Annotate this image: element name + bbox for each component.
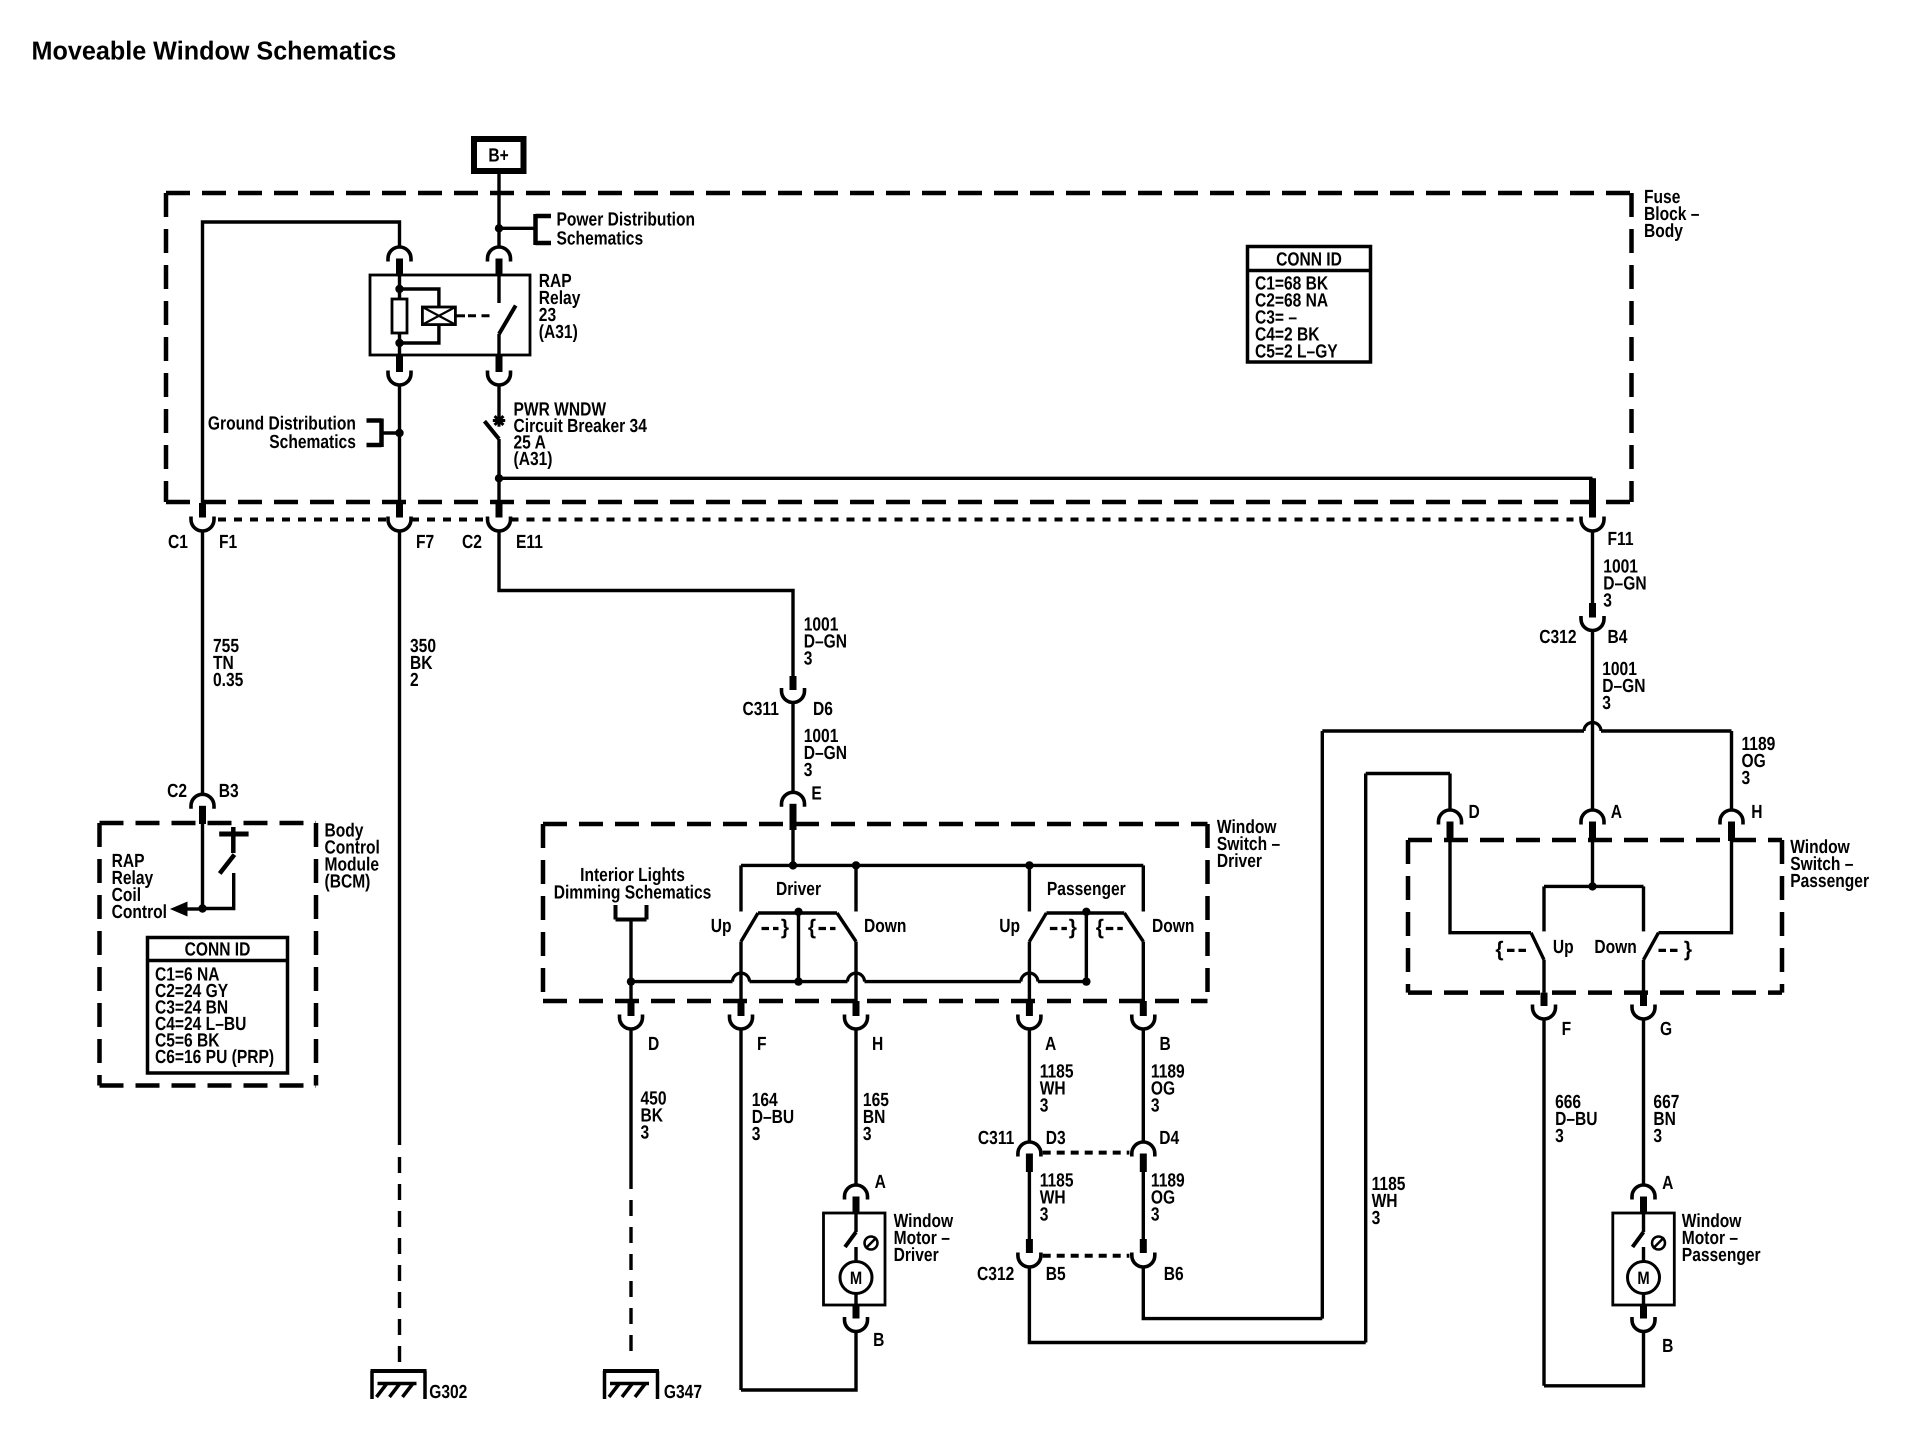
svg-text:C6=16 PU (PRP): C6=16 PU (PRP) xyxy=(155,1047,274,1068)
svg-text:C311: C311 xyxy=(743,699,780,720)
svg-text:3: 3 xyxy=(641,1123,650,1144)
svg-text:Up: Up xyxy=(711,916,732,937)
svg-text:(A31): (A31) xyxy=(539,322,578,343)
svg-text:E: E xyxy=(811,784,821,805)
svg-text:{: { xyxy=(1495,938,1503,961)
svg-text:Driver: Driver xyxy=(776,879,822,900)
svg-text:D4: D4 xyxy=(1159,1128,1179,1149)
svg-text:3: 3 xyxy=(804,760,813,781)
svg-text:F: F xyxy=(757,1034,767,1055)
svg-text:B: B xyxy=(1662,1336,1673,1357)
svg-text:0.35: 0.35 xyxy=(213,670,244,691)
svg-text:Body: Body xyxy=(1644,221,1683,242)
svg-text:(BCM): (BCM) xyxy=(325,872,371,893)
svg-text:Schematics: Schematics xyxy=(557,229,644,250)
svg-text:A: A xyxy=(1662,1173,1673,1194)
svg-text:C312: C312 xyxy=(977,1264,1014,1285)
svg-text:3: 3 xyxy=(863,1124,872,1145)
svg-text:Driver: Driver xyxy=(894,1245,940,1266)
svg-text:A: A xyxy=(875,1172,886,1193)
svg-text:D3: D3 xyxy=(1046,1128,1066,1149)
svg-text:3: 3 xyxy=(1742,768,1751,789)
svg-text:H: H xyxy=(1751,802,1762,823)
svg-text:3: 3 xyxy=(1151,1095,1160,1116)
svg-text:B3: B3 xyxy=(219,781,239,802)
svg-text:Driver: Driver xyxy=(1217,851,1263,872)
svg-text:B5: B5 xyxy=(1046,1264,1066,1285)
svg-text:CONN ID: CONN ID xyxy=(1276,250,1342,271)
svg-text:G347: G347 xyxy=(664,1382,702,1403)
svg-text:G: G xyxy=(1660,1019,1672,1040)
svg-text:C2: C2 xyxy=(462,532,482,553)
svg-text:3: 3 xyxy=(1040,1205,1049,1226)
svg-text:B4: B4 xyxy=(1608,627,1628,648)
svg-text:3: 3 xyxy=(1602,693,1611,714)
svg-text:Down: Down xyxy=(864,916,906,937)
svg-text:B: B xyxy=(1160,1034,1171,1055)
svg-text:B: B xyxy=(873,1330,884,1351)
svg-text:Moveable Window Schematics: Moveable Window Schematics xyxy=(32,36,397,66)
svg-text:C312: C312 xyxy=(1539,627,1576,648)
svg-text:D: D xyxy=(648,1034,659,1055)
svg-text:E11: E11 xyxy=(516,532,543,553)
svg-text:A: A xyxy=(1045,1034,1056,1055)
svg-text:C1: C1 xyxy=(168,532,188,553)
svg-text:Power Distribution: Power Distribution xyxy=(557,210,696,231)
svg-text:}: } xyxy=(1069,916,1077,939)
svg-text:Passenger: Passenger xyxy=(1790,871,1869,892)
svg-text:Down: Down xyxy=(1594,937,1636,958)
svg-text:Up: Up xyxy=(1553,937,1574,958)
svg-text:}: } xyxy=(781,916,789,939)
svg-text:3: 3 xyxy=(1555,1126,1564,1147)
svg-text:C311: C311 xyxy=(978,1128,1015,1149)
svg-text:F: F xyxy=(1562,1019,1572,1040)
svg-text:F11: F11 xyxy=(1608,529,1634,550)
svg-text:Passenger: Passenger xyxy=(1047,879,1126,900)
svg-text:3: 3 xyxy=(1372,1208,1381,1229)
svg-text:(A31): (A31) xyxy=(514,449,553,470)
svg-text:A: A xyxy=(1611,802,1622,823)
svg-text:C5=2 L–GY: C5=2 L–GY xyxy=(1255,342,1338,363)
svg-text:3: 3 xyxy=(752,1124,761,1145)
svg-text:D6: D6 xyxy=(813,699,833,720)
svg-text:3: 3 xyxy=(804,649,813,670)
svg-text:3: 3 xyxy=(1603,591,1612,612)
svg-text:Dimming Schematics: Dimming Schematics xyxy=(554,883,712,904)
svg-text:2: 2 xyxy=(410,670,419,691)
svg-text:{: { xyxy=(1096,916,1104,939)
svg-text:Passenger: Passenger xyxy=(1682,1245,1761,1266)
svg-text:B+: B+ xyxy=(488,146,508,167)
svg-text:M: M xyxy=(850,1268,862,1288)
svg-text:Up: Up xyxy=(999,916,1020,937)
svg-text:{: { xyxy=(808,916,816,939)
svg-text:3: 3 xyxy=(1040,1095,1049,1116)
svg-text:3: 3 xyxy=(1151,1205,1160,1226)
svg-text:3: 3 xyxy=(1653,1126,1662,1147)
svg-text:D: D xyxy=(1469,802,1480,823)
svg-text:Down: Down xyxy=(1152,916,1194,937)
svg-text:B6: B6 xyxy=(1164,1264,1184,1285)
svg-text:C2: C2 xyxy=(167,781,187,802)
svg-text:F7: F7 xyxy=(416,532,434,553)
svg-text:H: H xyxy=(872,1034,883,1055)
svg-text:Schematics: Schematics xyxy=(269,432,356,453)
svg-text:G302: G302 xyxy=(429,1382,467,1403)
svg-text:M: M xyxy=(1637,1268,1649,1288)
svg-text:CONN ID: CONN ID xyxy=(185,940,251,961)
svg-text:Control: Control xyxy=(112,902,167,923)
svg-text:}: } xyxy=(1684,938,1692,961)
svg-text:F1: F1 xyxy=(219,532,238,553)
